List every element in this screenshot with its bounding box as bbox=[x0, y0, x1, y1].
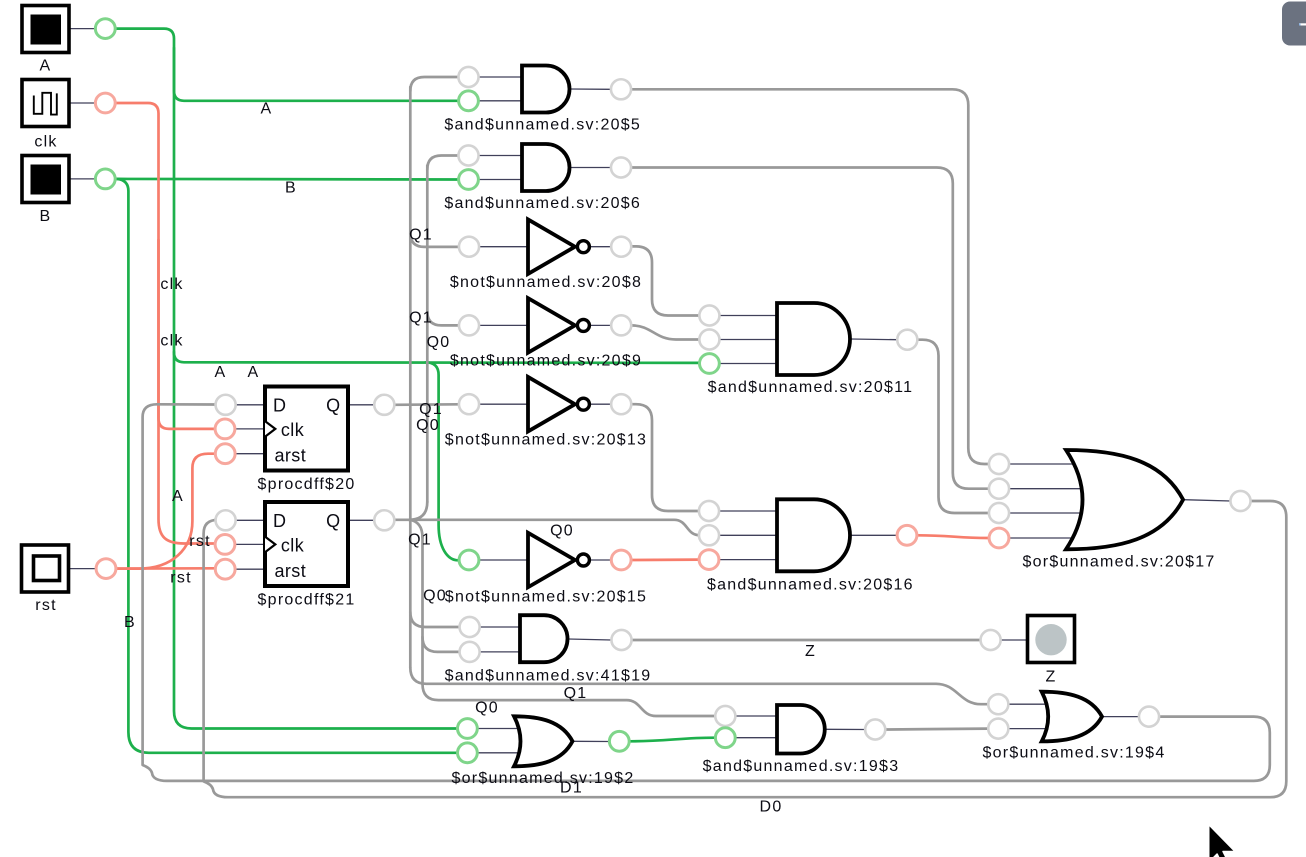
svg-text:$and$unnamed.sv:41$19: $and$unnamed.sv:41$19 bbox=[445, 668, 652, 685]
svg-text:clk: clk bbox=[281, 420, 305, 440]
svg-text:D: D bbox=[273, 395, 286, 415]
svg-text:$not$unnamed.sv:20$9: $not$unnamed.sv:20$9 bbox=[450, 353, 642, 370]
svg-text:$or$unnamed.sv:19$2: $or$unnamed.sv:19$2 bbox=[452, 770, 635, 787]
svg-text:D0: D0 bbox=[760, 799, 783, 816]
svg-text:Q1: Q1 bbox=[408, 532, 432, 549]
svg-text:Q0: Q0 bbox=[423, 587, 447, 604]
svg-text:clk: clk bbox=[281, 536, 305, 556]
svg-text:rst: rst bbox=[170, 570, 192, 587]
svg-text:$not$unnamed.sv:20$8: $not$unnamed.sv:20$8 bbox=[450, 274, 642, 291]
svg-text:Q1: Q1 bbox=[409, 227, 433, 244]
svg-text:$and$unnamed.sv:20$5: $and$unnamed.sv:20$5 bbox=[444, 117, 641, 134]
svg-text:$and$unnamed.sv:19$3: $and$unnamed.sv:19$3 bbox=[703, 758, 900, 775]
svg-text:Z: Z bbox=[805, 643, 816, 660]
svg-text:Q1: Q1 bbox=[409, 310, 433, 327]
svg-text:Q1: Q1 bbox=[564, 685, 588, 702]
svg-text:arst: arst bbox=[275, 561, 307, 581]
svg-text:A: A bbox=[248, 364, 260, 381]
svg-text:Q0: Q0 bbox=[550, 523, 574, 540]
svg-text:clk: clk bbox=[160, 276, 183, 293]
svg-text:clk: clk bbox=[34, 134, 57, 151]
svg-text:Z: Z bbox=[1045, 669, 1056, 686]
svg-text:B: B bbox=[124, 614, 136, 631]
svg-text:clk: clk bbox=[160, 333, 183, 350]
svg-text:rst: rst bbox=[35, 597, 57, 614]
svg-text:Q0: Q0 bbox=[416, 417, 440, 434]
svg-text:Q0: Q0 bbox=[475, 700, 499, 717]
svg-text:$and$unnamed.sv:20$16: $and$unnamed.sv:20$16 bbox=[707, 577, 914, 594]
svg-text:rst: rst bbox=[189, 533, 211, 550]
svg-text:A: A bbox=[261, 101, 273, 118]
svg-text:$and$unnamed.sv:20$6: $and$unnamed.sv:20$6 bbox=[444, 195, 641, 212]
svg-text:$not$unnamed.sv:20$15: $not$unnamed.sv:20$15 bbox=[445, 589, 647, 606]
svg-text:arst: arst bbox=[275, 446, 307, 466]
svg-text:$and$unnamed.sv:20$11: $and$unnamed.sv:20$11 bbox=[708, 379, 914, 396]
svg-text:D: D bbox=[273, 511, 286, 531]
svg-text:A: A bbox=[172, 488, 184, 505]
svg-text:$procdff$20: $procdff$20 bbox=[258, 476, 356, 493]
svg-text:Q0: Q0 bbox=[427, 334, 451, 351]
svg-text:B: B bbox=[40, 208, 52, 225]
svg-text:A: A bbox=[215, 364, 227, 381]
svg-text:$or$unnamed.sv:20$17: $or$unnamed.sv:20$17 bbox=[1022, 554, 1215, 571]
svg-text:Q1: Q1 bbox=[419, 401, 443, 418]
svg-text:Q: Q bbox=[326, 511, 340, 531]
svg-text:B: B bbox=[285, 180, 297, 197]
svg-text:$procdff$21: $procdff$21 bbox=[258, 592, 356, 609]
svg-text:A: A bbox=[40, 58, 52, 75]
svg-text:Q: Q bbox=[326, 395, 340, 415]
svg-text:$not$unnamed.sv:20$13: $not$unnamed.sv:20$13 bbox=[445, 432, 647, 449]
svg-text:D1: D1 bbox=[560, 780, 583, 797]
svg-text:$or$unnamed.sv:19$4: $or$unnamed.sv:19$4 bbox=[983, 745, 1166, 762]
